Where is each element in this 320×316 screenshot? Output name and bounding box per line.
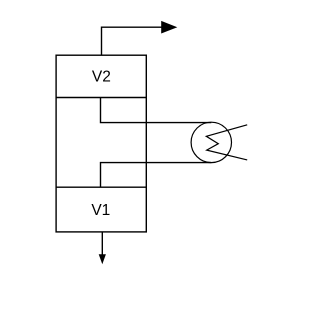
V2 bottom divider — [56, 97, 146, 99]
svg-text:V2: V2 — [92, 68, 111, 85]
heater zigzag coil — [206, 125, 247, 160]
bottom outlet wire — [101, 232, 103, 255]
bottom outlet arrowhead — [99, 254, 106, 264]
V1 top divider — [56, 186, 146, 188]
lower exchanger pipe — [101, 163, 212, 188]
upper exchanger pipe — [101, 98, 212, 123]
heat exchanger circle — [191, 122, 231, 162]
top outlet arrowhead — [161, 21, 177, 34]
column outer wall — [56, 55, 146, 232]
top outlet wire — [102, 27, 163, 55]
svg-text:V1: V1 — [91, 202, 110, 219]
